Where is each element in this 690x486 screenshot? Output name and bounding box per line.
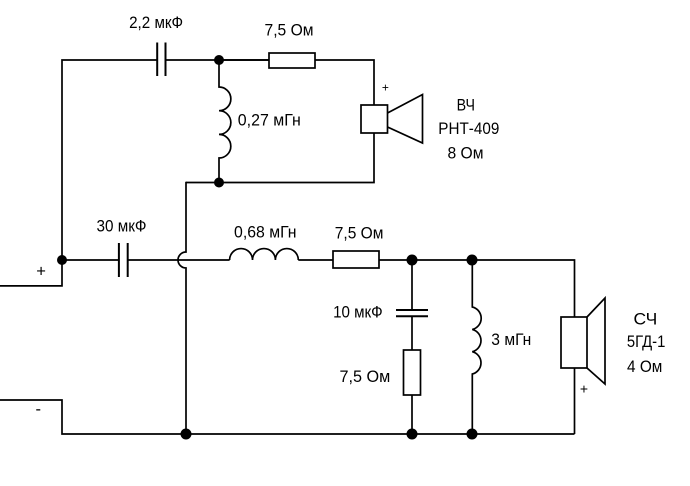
node input plus bbox=[57, 255, 67, 265]
svg-text:0,27 мГн: 0,27 мГн bbox=[238, 111, 301, 130]
resistor R2 7,5 Ом bbox=[333, 251, 379, 268]
tweeter BA1 horn bbox=[388, 95, 423, 144]
svg-text:0,68 мГн: 0,68 мГн bbox=[234, 223, 297, 242]
wire speaker bottom bbox=[574, 368, 576, 434]
node C bbox=[407, 255, 418, 266]
svg-text:-: - bbox=[36, 400, 42, 419]
inductor L1 0,27 мГн bbox=[219, 60, 231, 183]
inductor L2 0,68 мГн bbox=[230, 249, 299, 260]
node A bbox=[214, 55, 224, 65]
svg-text:7,5 Ом: 7,5 Ом bbox=[335, 224, 384, 243]
svg-text:4 Ом: 4 Ом bbox=[627, 357, 662, 376]
wire node A to R1 bbox=[219, 59, 269, 61]
node E bottom bbox=[181, 429, 192, 440]
svg-text:2,2 мкФ: 2,2 мкФ bbox=[129, 13, 183, 32]
wire R1 to tweeter top bbox=[315, 60, 374, 105]
wire L2 to R2 bbox=[298, 259, 333, 261]
speaker BA2 rect bbox=[561, 317, 587, 368]
wire input plus lead bbox=[0, 60, 157, 286]
speaker BA2 horn bbox=[587, 298, 605, 384]
node B bbox=[214, 178, 224, 188]
wire bottom bus bbox=[0, 400, 575, 434]
svg-text:7,5 Ом: 7,5 Ом bbox=[340, 367, 391, 386]
svg-text:5ГД-1: 5ГД-1 bbox=[627, 332, 666, 351]
wire C1 to node A bbox=[166, 59, 270, 61]
svg-text:+: + bbox=[36, 261, 46, 280]
node D bbox=[467, 255, 478, 266]
wire tweeter bottom loop bbox=[186, 133, 374, 183]
capacitor C2 30 мкФ plates bbox=[118, 243, 120, 277]
svg-text:7,5 Ом: 7,5 Ом bbox=[265, 20, 314, 39]
svg-text:+: + bbox=[580, 380, 588, 396]
svg-text:+: + bbox=[382, 80, 389, 94]
wire C3 to R3 bbox=[411, 317, 413, 351]
capacitor C1 2,2 мкФ plates bbox=[156, 43, 158, 77]
capacitor C3 10 мкФ branch wire top bbox=[411, 260, 413, 310]
wire mid branch left bbox=[62, 259, 118, 261]
svg-text:10 мкФ: 10 мкФ bbox=[333, 303, 383, 322]
svg-text:ВЧ: ВЧ bbox=[457, 95, 475, 114]
tweeter BA1 square bbox=[361, 105, 388, 133]
node F bottom bbox=[407, 429, 418, 440]
svg-text:СЧ: СЧ bbox=[634, 310, 658, 329]
wire vertical with hop bbox=[178, 182, 186, 434]
svg-text:30 мкФ: 30 мкФ bbox=[97, 217, 147, 236]
resistor R1 7,5 Ом bbox=[269, 53, 315, 68]
wire C2 to L2 bbox=[128, 259, 230, 261]
resistor R3 7,5 Ом bbox=[404, 350, 421, 395]
svg-text:3 мГн: 3 мГн bbox=[491, 330, 531, 349]
wire R2 to speaker top bbox=[379, 260, 575, 317]
wire R3 to bottom bus bbox=[411, 395, 413, 434]
capacitor C3 10 мкФ plates bbox=[396, 309, 428, 311]
svg-text:РНТ-409: РНТ-409 bbox=[438, 119, 499, 138]
svg-text:8 Ом: 8 Ом bbox=[448, 144, 484, 163]
inductor L3 3 мГн bbox=[472, 260, 481, 434]
node G bottom bbox=[467, 429, 478, 440]
